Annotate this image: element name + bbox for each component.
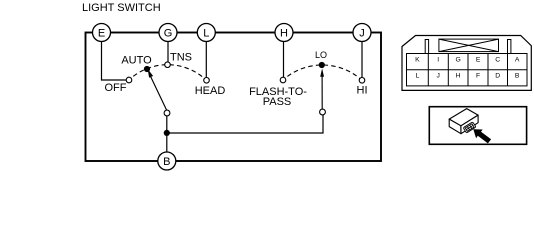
- svg-text:K: K: [415, 56, 420, 63]
- terminal E: [93, 24, 111, 42]
- terminal J: [353, 24, 371, 42]
- lever left (wiper to AUTO): [148, 69, 167, 111]
- contact HEAD: [204, 78, 210, 84]
- wire H to FLASH-TO-PASS: [283, 42, 285, 78]
- dashed arc right (FLASH-TO-PASS - LO - HI): [283, 65, 362, 80]
- connector outline: [402, 36, 531, 91]
- svg-text:AUTO: AUTO: [121, 55, 152, 67]
- lever right (wiper to LO): [320, 68, 324, 109]
- arrow pointer: [473, 129, 491, 143]
- terminal L: [197, 24, 215, 42]
- contact LO (closed): [319, 62, 325, 68]
- wire E to OFF: [102, 42, 127, 81]
- wire G to TNS: [167, 42, 169, 62]
- svg-text:J: J: [436, 73, 439, 80]
- svg-text:A: A: [515, 56, 520, 63]
- connector view callout frame: [429, 107, 526, 145]
- connector pin grid: [407, 54, 528, 86]
- wire junction to right pivot: [167, 115, 323, 133]
- contact TNS: [165, 62, 171, 68]
- terminal H: [275, 24, 293, 42]
- svg-text:OFF: OFF: [105, 82, 127, 94]
- svg-text:HEAD: HEAD: [195, 85, 226, 97]
- wire J to HI: [361, 42, 363, 78]
- svg-text:LO: LO: [315, 50, 327, 60]
- pivot right: [320, 109, 326, 115]
- svg-text:G: G: [164, 28, 173, 40]
- connector latch left: [425, 40, 428, 54]
- svg-text:HI: HI: [357, 85, 368, 97]
- svg-text:H: H: [456, 73, 461, 80]
- svg-text:F: F: [476, 73, 480, 80]
- switch body outline: [86, 33, 382, 162]
- contact AUTO (closed): [144, 66, 150, 72]
- svg-text:E: E: [476, 56, 481, 63]
- wire left pivot to B: [166, 116, 168, 153]
- svg-text:L: L: [203, 28, 209, 40]
- contact OFF: [126, 77, 132, 83]
- junction node: [164, 130, 170, 136]
- svg-text:TNS: TNS: [170, 52, 192, 64]
- wire L to HEAD: [205, 42, 207, 78]
- svg-text:B: B: [163, 156, 170, 168]
- connector keyway box with cross: [439, 39, 499, 52]
- svg-text:B: B: [515, 73, 520, 80]
- svg-text:E: E: [98, 28, 105, 40]
- svg-text:L: L: [416, 73, 420, 80]
- svg-text:J: J: [359, 28, 365, 40]
- terminal G: [159, 24, 177, 42]
- svg-text:C: C: [495, 56, 500, 63]
- svg-text:LIGHT SWITCH: LIGHT SWITCH: [82, 2, 161, 14]
- svg-text:PASS: PASS: [263, 96, 292, 108]
- svg-text:D: D: [495, 73, 500, 80]
- svg-text:I: I: [437, 56, 439, 63]
- pivot left: [164, 110, 170, 116]
- dashed arc left (OFF-AUTO-TNS-HEAD): [129, 65, 207, 81]
- svg-text:G: G: [455, 56, 460, 63]
- terminal B: [158, 152, 176, 170]
- connector latch right: [508, 40, 511, 54]
- svg-text:H: H: [280, 28, 288, 40]
- contact HI: [359, 78, 365, 84]
- connector 3d icon: [449, 109, 478, 134]
- contact FLASH-TO-PASS: [280, 77, 286, 83]
